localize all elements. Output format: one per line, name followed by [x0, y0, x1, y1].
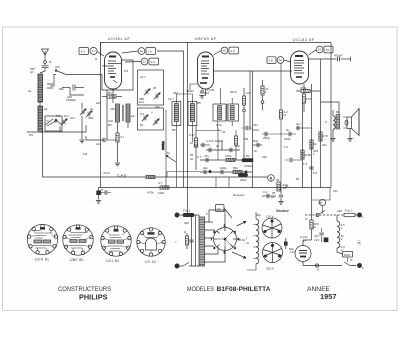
svg-text:2n: 2n [216, 144, 220, 148]
svg-text:25: 25 [153, 86, 157, 90]
svg-text:Fus.2: Fus.2 [345, 209, 353, 213]
svg-text:25µF: 25µF [263, 136, 270, 140]
svg-text:4.7: 4.7 [120, 135, 125, 139]
svg-text:470k: 470k [305, 153, 312, 157]
svg-text:2x: 2x [90, 107, 94, 111]
svg-text:10: 10 [318, 48, 322, 52]
svg-text:C.A.G: C.A.G [117, 174, 127, 178]
svg-text:5.2: 5.2 [140, 112, 145, 116]
svg-text:47n: 47n [253, 123, 258, 127]
svg-text:56k: 56k [233, 166, 238, 170]
svg-text:470kΩ: 470kΩ [244, 164, 254, 168]
svg-text:5p: 5p [140, 123, 144, 127]
svg-text:90: 90 [285, 184, 289, 188]
svg-text:V: V [341, 248, 343, 252]
svg-text:1001: 1001 [344, 253, 351, 257]
svg-text:a1: a1 [28, 89, 32, 93]
svg-text:11: 11 [269, 176, 272, 180]
svg-text:14: 14 [303, 239, 307, 243]
svg-text:170: 170 [306, 97, 311, 101]
svg-text:Z: Z [324, 120, 327, 124]
svg-text:1.6: 1.6 [148, 49, 153, 53]
svg-text:100p: 100p [220, 166, 227, 170]
svg-text:8.2: 8.2 [313, 171, 318, 175]
svg-text:47nF: 47nF [103, 171, 110, 175]
svg-text:IT: IT [350, 258, 353, 262]
svg-text:15: 15 [326, 48, 330, 52]
svg-text:2.6: 2.6 [151, 60, 156, 64]
svg-text:22k: 22k [262, 155, 267, 159]
svg-text:nF: nF [99, 191, 103, 195]
svg-text:0.1: 0.1 [284, 145, 289, 149]
svg-text:50: 50 [296, 177, 300, 181]
svg-text:AM: AM [55, 65, 60, 69]
svg-text:pF: pF [30, 70, 34, 74]
svg-text:Secteur: Secteur [276, 209, 289, 213]
svg-text:a2: a2 [44, 107, 48, 111]
svg-text:B4: B4 [108, 123, 112, 127]
svg-text:U2: U2 [217, 207, 221, 211]
svg-text:47n: 47n [204, 154, 209, 158]
svg-text:1000pF: 1000pF [66, 98, 76, 102]
svg-text:B5: B5 [197, 101, 201, 105]
svg-text:IT: IT [305, 217, 308, 221]
svg-text:PHILIPS: PHILIPS [79, 293, 108, 302]
svg-text:Dessous: Dessous [233, 193, 245, 197]
svg-text:2n: 2n [254, 149, 258, 153]
svg-text:456: 456 [88, 116, 93, 120]
svg-text:22n: 22n [96, 142, 101, 146]
svg-text:10: 10 [223, 49, 227, 53]
svg-text:30nF: 30nF [230, 90, 237, 94]
svg-text:GO: GO [70, 116, 75, 120]
svg-text:元: 元 [357, 240, 361, 245]
svg-text:0.47: 0.47 [189, 133, 195, 137]
svg-text:12: 12 [143, 60, 147, 64]
svg-text:µF: µF [271, 195, 275, 199]
svg-text:Tr: Tr [46, 119, 49, 123]
svg-text:UCL 82: UCL 82 [106, 259, 120, 263]
svg-text:12V: 12V [290, 250, 295, 254]
svg-text:1.5: 1.5 [231, 49, 236, 53]
svg-text:470k: 470k [147, 191, 154, 195]
svg-text:4.7: 4.7 [158, 181, 163, 185]
svg-text:16: 16 [318, 201, 322, 205]
svg-text:100kΩ: 100kΩ [161, 140, 165, 150]
svg-text:40: 40 [276, 178, 280, 182]
svg-text:Fus.1: Fus.1 [183, 209, 191, 213]
svg-text:6.3: 6.3 [124, 69, 129, 73]
svg-text:4.7k: 4.7k [216, 123, 222, 127]
svg-text:4.7nF 100pF: 4.7nF 100pF [206, 139, 223, 143]
svg-text:V: V [341, 226, 343, 230]
svg-text:B1F08-PHILETTA: B1F08-PHILETTA [217, 286, 271, 293]
svg-text:100: 100 [108, 119, 113, 123]
svg-text:UY 42: UY 42 [145, 260, 156, 264]
svg-text:25µ: 25µ [256, 213, 261, 217]
svg-text:4.5: 4.5 [81, 49, 86, 53]
svg-text:1.5: 1.5 [303, 162, 308, 166]
svg-text:470: 470 [323, 134, 328, 138]
svg-text:470k: 470k [300, 86, 307, 90]
svg-text:25p: 25p [155, 105, 160, 109]
svg-text:220: 220 [337, 209, 342, 213]
svg-text:4n7: 4n7 [296, 122, 301, 126]
svg-text:452: 452 [173, 91, 178, 95]
svg-text:470pF: 470pF [334, 54, 343, 58]
svg-text:22n: 22n [203, 166, 208, 170]
svg-text:21.7: 21.7 [140, 75, 146, 79]
svg-text:12V: 12V [314, 238, 319, 242]
svg-text:12: 12 [279, 58, 283, 62]
svg-text:1MΩ: 1MΩ [158, 191, 165, 195]
svg-text:10k: 10k [246, 91, 251, 95]
svg-text:1M: 1M [244, 137, 249, 141]
svg-text:47: 47 [222, 130, 226, 134]
svg-text:47k: 47k [107, 91, 112, 95]
svg-text:UCL82 AF: UCL82 AF [293, 38, 315, 42]
svg-text:452kc: 452kc [186, 89, 195, 93]
svg-text:22k: 22k [110, 107, 115, 111]
svg-text:56k: 56k [59, 87, 64, 91]
svg-text:1.3M: 1.3M [243, 154, 250, 158]
svg-text:1M: 1M [83, 152, 88, 156]
svg-text:470k: 470k [225, 154, 232, 158]
svg-text:220: 220 [96, 101, 101, 105]
svg-text:3.7: 3.7 [92, 49, 97, 53]
svg-text:4700: 4700 [252, 128, 259, 132]
svg-text:22n: 22n [322, 143, 327, 147]
svg-text:UBF80 AF: UBF80 AF [195, 37, 217, 41]
svg-text:0.8: 0.8 [269, 59, 274, 63]
svg-text:UCH 81: UCH 81 [35, 258, 49, 262]
svg-text:ANNEE: ANNEE [307, 286, 330, 293]
svg-text:V: V [341, 237, 343, 241]
svg-text:11: 11 [140, 49, 143, 53]
svg-text:kc/s: kc/s [139, 100, 145, 104]
svg-text:GO: GO [64, 114, 69, 118]
svg-text:110 V: 110 V [266, 215, 274, 219]
svg-text:220 V: 220 V [266, 267, 274, 271]
svg-text:5nF: 5nF [253, 139, 258, 143]
svg-text:4n: 4n [286, 128, 290, 132]
svg-text:B6: B6 [172, 128, 176, 132]
svg-text:17nB: 17nB [207, 88, 214, 92]
svg-text:220k: 220k [284, 137, 291, 141]
svg-text:21.7: 21.7 [168, 97, 174, 101]
svg-text:C.T: C.T [197, 155, 202, 159]
svg-text:pF: pF [190, 157, 194, 161]
svg-text:1957: 1957 [320, 294, 337, 301]
svg-text:UCH81 AF: UCH81 AF [108, 37, 130, 41]
svg-text:UBF 80: UBF 80 [70, 258, 84, 262]
svg-text:PO: PO [29, 133, 34, 137]
svg-text:47n: 47n [333, 189, 338, 193]
svg-text:0.1: 0.1 [263, 190, 268, 194]
svg-text:25µF: 25µF [240, 178, 247, 182]
svg-text:B2: B2 [336, 110, 340, 114]
svg-text:50p: 50p [235, 144, 240, 148]
svg-text:MODELES: MODELES [187, 286, 214, 293]
svg-text:a3: a3 [131, 114, 135, 118]
svg-text:1k: 1k [314, 142, 318, 146]
svg-text:400: 400 [184, 221, 189, 225]
